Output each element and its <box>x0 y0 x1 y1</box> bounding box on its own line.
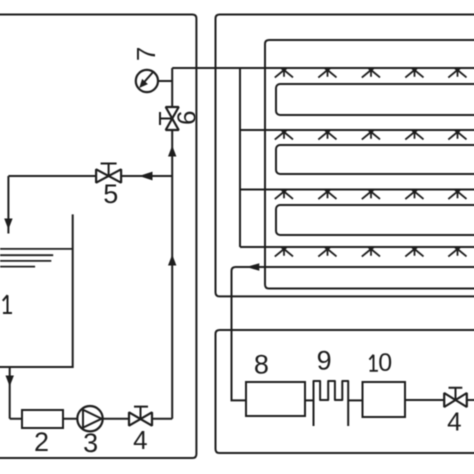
dryer 8 <box>246 382 305 416</box>
pipe spray branch 3 <box>240 189 474 191</box>
flow arrow left on return pipe <box>246 263 259 271</box>
coil pass 1 <box>276 84 474 115</box>
flow arrow left toward valve 5 <box>139 172 153 181</box>
pump 3 <box>77 406 102 431</box>
spray chamber inner wall <box>265 40 474 289</box>
filter 2 <box>22 410 63 428</box>
spray nozzles row 2 <box>275 130 467 140</box>
electric heater 9 <box>314 381 349 426</box>
coil pass 3 <box>276 205 474 235</box>
return pipe from chamber to heater unit <box>232 267 474 400</box>
flow arrow down into tank <box>4 219 12 230</box>
tank 1 water surface <box>0 248 73 250</box>
pipe heater 9 to fan 10 <box>348 399 362 401</box>
pipe tank outlet drop <box>9 367 11 419</box>
svg-text:8: 8 <box>254 350 269 380</box>
pipe spray branch 2 <box>240 129 474 131</box>
pipe branch to valve 5 <box>8 175 172 177</box>
fan 10 <box>363 382 406 417</box>
enclosure box bottom right (heater unit) <box>216 330 474 453</box>
pipe spray branch 4 <box>240 246 474 248</box>
label 10 (fan) <box>369 355 378 371</box>
svg-text:9: 9 <box>317 345 332 375</box>
flow arrow down to pump line <box>6 376 14 387</box>
svg-text:4: 4 <box>133 425 147 455</box>
valve 4 (pump discharge) <box>129 407 152 426</box>
spray nozzles row 3 <box>275 190 467 200</box>
svg-text:0: 0 <box>378 349 392 377</box>
svg-text:4: 4 <box>447 406 461 436</box>
enclosure box right (spray chamber unit) <box>216 15 474 297</box>
spray nozzles row 4 <box>275 247 467 257</box>
pipe fan 10 to valve 4 <box>405 399 444 401</box>
tank 1 water shading line <box>0 266 35 268</box>
svg-text:3: 3 <box>83 428 98 458</box>
valve 6 (vertical on riser) <box>160 107 179 130</box>
label 1 (tank) <box>3 295 12 313</box>
flow arrow up on riser (lower) <box>168 255 176 266</box>
svg-text:7: 7 <box>131 47 161 61</box>
coil pass 2 <box>276 145 474 174</box>
pipe tank inlet drop <box>7 176 9 234</box>
pipe 8 to heater 9 <box>305 399 314 401</box>
valve 5 <box>96 164 121 183</box>
tank 1 <box>0 214 73 367</box>
riser pipe up from valve 4 <box>171 68 173 419</box>
pressure gauge 7 <box>136 70 172 92</box>
pipe out of valve 4 <box>467 399 474 401</box>
svg-text:6: 6 <box>172 110 202 124</box>
svg-text:2: 2 <box>34 427 49 457</box>
svg-text:5: 5 <box>103 179 118 209</box>
enclosure box left (water tank unit) <box>0 15 196 459</box>
pipe supply header into chamber (spray branch 1) <box>172 67 474 69</box>
tank 1 water shading line <box>0 260 51 262</box>
valve 4 (air outlet) <box>444 388 467 407</box>
flow arrow up on riser (upper) <box>168 146 176 157</box>
manifold down pipe <box>239 68 241 247</box>
tank 1 water shading line <box>0 254 53 256</box>
pipe bottom run to riser <box>10 418 173 420</box>
spray nozzles row 1 <box>275 68 467 78</box>
